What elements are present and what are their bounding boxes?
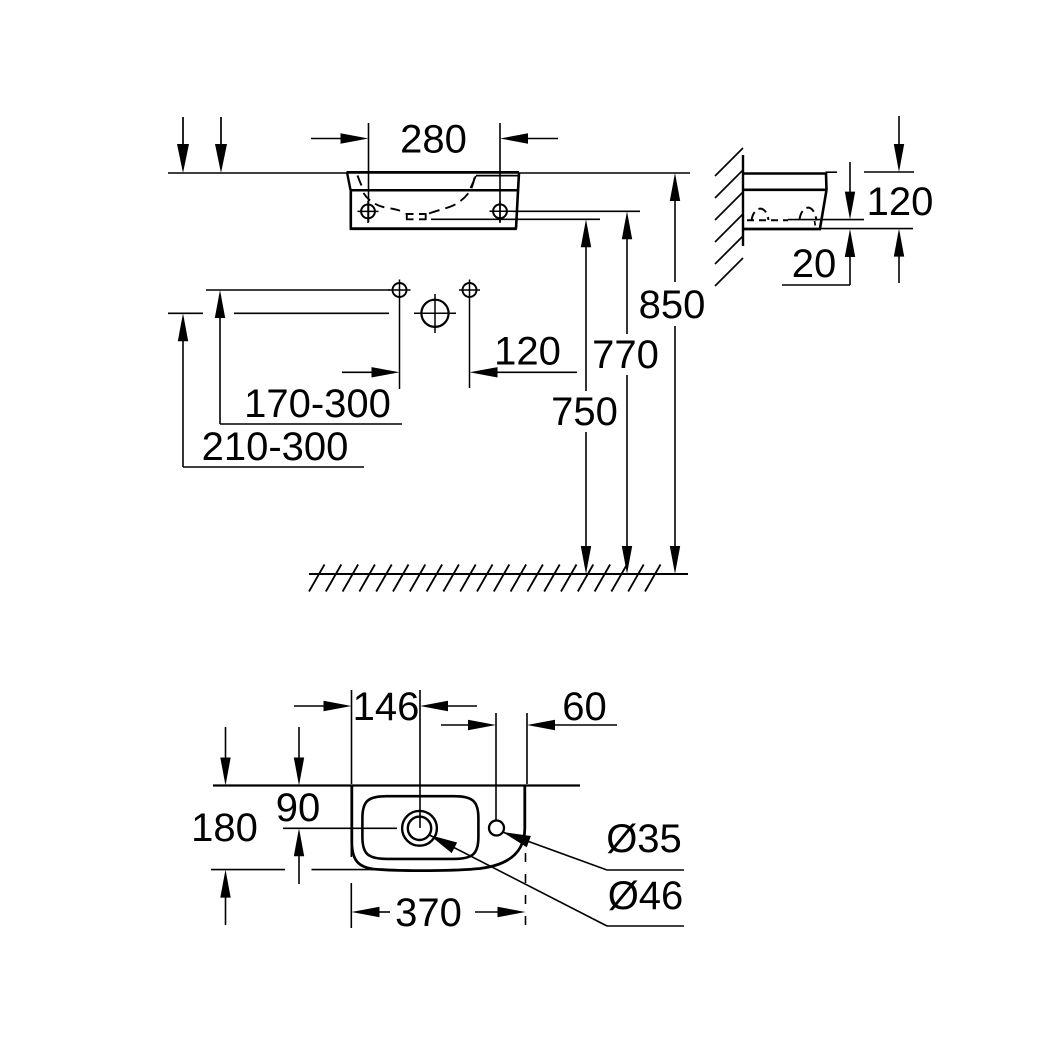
tick 210-300 <box>168 312 203 314</box>
wall line (plan) <box>213 784 580 786</box>
dim 90 arrow down <box>294 727 304 786</box>
dim 120 top tick (side) <box>864 171 914 173</box>
floor line <box>309 573 688 575</box>
dim 280 arrow left <box>311 133 369 143</box>
dim 146 arrow right <box>420 701 477 711</box>
dim 146 ext right (faucet centerline) <box>419 690 421 828</box>
dim 180 arrow up <box>220 870 230 925</box>
dim 180 tick <box>211 869 285 871</box>
mounting hole right (front) <box>490 201 514 223</box>
svg-text:210-300: 210-300 <box>202 425 349 469</box>
hidden bowl edges (dashed, side) <box>747 208 817 226</box>
wall level arrow 1 <box>177 117 189 173</box>
dim 770 line <box>622 211 632 574</box>
dim 280 extension line right <box>499 123 501 222</box>
leader O35 <box>500 826 684 870</box>
faucet level line <box>234 312 389 314</box>
faucet hole (plan) <box>402 811 437 846</box>
dim 170-300 arrow <box>215 290 225 424</box>
svg-text:370: 370 <box>395 891 462 935</box>
dim 280 extension line left <box>368 123 370 222</box>
dim 60 ext right <box>526 713 528 784</box>
wall hatching (side) <box>715 148 743 286</box>
dim 146 ext left <box>351 690 353 784</box>
fixing hole right (schematic) <box>459 280 480 389</box>
dim 60 ext left (tap hole centerline) <box>495 713 497 820</box>
dim 20 arrow up <box>845 229 855 285</box>
dim 20 arrow down <box>845 162 855 220</box>
rim inner level line <box>431 218 600 220</box>
dim 210-300 baseline <box>183 466 364 468</box>
hidden bowl edges (dashed, front) <box>358 176 518 220</box>
svg-text:90: 90 <box>276 786 321 830</box>
svg-text:280: 280 <box>400 118 467 162</box>
dim 90 arrow up <box>294 828 304 884</box>
wall level arrow 2 <box>215 117 227 173</box>
basin outline (plan) <box>352 786 525 871</box>
fixing hole left (schematic) <box>389 280 411 390</box>
svg-text:120: 120 <box>494 330 561 374</box>
leader O46 <box>427 830 684 926</box>
dim 370 ext right (dashed) <box>525 853 527 930</box>
wall line (side) <box>742 155 744 246</box>
inner rim level line (side) <box>788 219 864 221</box>
floor hatching <box>309 565 661 592</box>
basin front outline <box>347 172 520 228</box>
dim 20 bottom tick <box>782 284 850 286</box>
svg-text:146: 146 <box>353 685 420 729</box>
dim 60 arrow left <box>441 720 496 730</box>
inner bowl (plan) <box>362 796 478 859</box>
svg-text:750: 750 <box>551 390 618 434</box>
mounting hole left (front) <box>358 201 379 223</box>
svg-text:120: 120 <box>867 180 934 224</box>
dim 180 arrow down <box>220 727 230 786</box>
dim 370 arrow left <box>352 907 391 917</box>
dim 120 arrow right <box>342 367 400 377</box>
dim 170-300 baseline <box>220 423 402 425</box>
faucet center level line (plan) <box>283 827 397 829</box>
svg-text:20: 20 <box>792 242 837 286</box>
dim 146 arrow left <box>294 701 352 711</box>
mounting hole level line <box>513 210 640 212</box>
dim 60 arrow right <box>527 720 617 730</box>
wall line <box>168 172 690 174</box>
basin front edge extension <box>312 869 381 871</box>
faucet hole (schematic) <box>414 294 456 333</box>
dim 750 line <box>581 219 591 574</box>
basin bottom reference line (side) <box>821 228 914 230</box>
svg-text:Ø46: Ø46 <box>608 874 684 918</box>
dim 210-300 arrow <box>178 313 188 467</box>
dim 120 arrow up (side) <box>894 229 904 283</box>
dim 280 arrow right <box>500 133 558 143</box>
svg-text:60: 60 <box>562 685 607 729</box>
basin side profile <box>743 172 837 229</box>
dim 120 arrow down (side) <box>894 116 904 172</box>
dim 370 arrow right <box>475 907 526 917</box>
svg-text:770: 770 <box>592 333 659 377</box>
svg-text:850: 850 <box>639 283 706 327</box>
dim 850 line <box>670 173 680 574</box>
dim 370 ext left <box>350 847 352 857</box>
svg-text:170-300: 170-300 <box>244 382 391 426</box>
tap hole (plan) <box>489 821 504 836</box>
svg-text:180: 180 <box>191 806 258 850</box>
dim 120 arrow left <box>470 367 578 377</box>
svg-text:Ø35: Ø35 <box>606 817 682 861</box>
fixing hole level line <box>206 289 390 291</box>
